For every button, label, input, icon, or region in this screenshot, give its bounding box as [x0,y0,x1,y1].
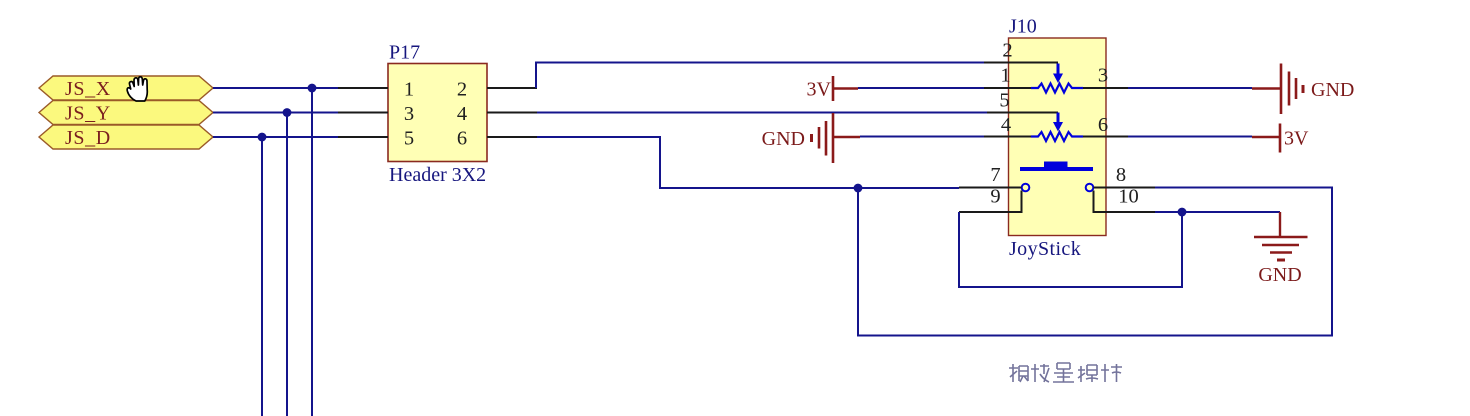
svg-text:3: 3 [404,103,414,125]
svg-text:6: 6 [1098,114,1108,136]
svg-text:3V: 3V [1284,128,1309,150]
wire JS_Y to P17 pin3 [213,112,340,114]
junction on JS_X wire [308,84,317,93]
wire P17 pin4 to J10 pin5 [537,112,987,114]
wire P17 pin6 toward switch [537,137,959,188]
pushbutton contact left [1022,184,1030,192]
svg-text:4: 4 [457,103,467,125]
P17 pin 6 [457,128,537,150]
svg-text:2: 2 [1002,40,1012,62]
port JS_D [39,125,213,149]
svg-text:1: 1 [1000,65,1010,87]
wire outer loop pin7 junction to pin8 [858,188,1332,336]
svg-text:GND: GND [1258,264,1301,286]
svg-text:J10: J10 [1009,16,1037,38]
hand cursor icon [127,77,147,101]
J10 pin 2 [984,40,1058,63]
J10 pin 7 [959,164,1022,188]
svg-text:5: 5 [404,128,414,150]
ground earth symbol bottom right [1254,212,1308,286]
svg-text:JS_Y: JS_Y [65,103,111,125]
svg-text:10: 10 [1118,186,1139,208]
connector P17 body [388,42,487,187]
potentiometer X wiper arrow [1053,64,1063,84]
svg-text:3: 3 [1098,65,1108,87]
P17 pin 5 [338,128,414,150]
wire pin10 to GND earth [1155,211,1280,213]
J10 pin 10 [1094,186,1156,213]
svg-text:JS_X: JS_X [65,78,111,100]
J10 pin 9 [959,186,1022,213]
junction node JS_D at switch [854,184,863,193]
junction on JS_D wire [258,133,267,142]
svg-text:2: 2 [457,79,467,101]
svg-text:3V: 3V [807,79,832,101]
potentiometer Y resistor [1031,132,1083,141]
junction on JS_Y wire [283,108,292,117]
svg-text:4: 4 [1001,114,1011,136]
svg-text:6: 6 [457,128,467,150]
power port 3V left [807,76,858,101]
wire inner loop pin9 to pin10 net [959,212,1182,287]
svg-text:JS_D: JS_D [65,127,111,149]
junction on pin10 wire [1178,208,1187,217]
J10 pin 4 [984,114,1031,137]
svg-text:8: 8 [1116,164,1126,186]
J10 pin 6 [1083,114,1128,137]
wire 3V to J10 pin1 [858,87,984,89]
power port 3V right [1252,124,1309,153]
wire J10 pin6 to 3V [1128,136,1252,138]
svg-text:1: 1 [404,79,414,101]
P17 pin 4 [457,103,537,125]
J10 pin 1 [984,65,1031,89]
J10 pin 5 [987,90,1058,113]
svg-text:P17: P17 [389,42,420,64]
potentiometer Y wiper arrow [1053,113,1063,132]
annotation text 模拟量摇杆 [1009,363,1122,382]
svg-text:JoyStick: JoyStick [1009,238,1081,260]
pushbutton contact right [1086,184,1094,192]
P17 pin 2 [457,79,537,101]
port JS_X [39,76,213,100]
wire JS_X vertical drop [311,88,313,416]
port JS_Y [39,101,213,125]
pushbutton actuator [1020,162,1093,170]
wire P17 pin2 to J10 pin2 [536,63,984,89]
power port GND left [762,113,860,163]
wire J10 pin3 to GND [1128,87,1252,89]
potentiometer X resistor [1031,84,1083,93]
svg-text:7: 7 [990,164,1000,186]
wire JS_D vertical drop [261,137,263,416]
wire JS_Y vertical drop [286,113,288,416]
svg-text:Header 3X2: Header 3X2 [389,164,486,186]
svg-text:GND: GND [1311,79,1354,101]
J10 pin 3 [1083,65,1128,89]
svg-text:5: 5 [999,90,1009,112]
wire JS_X to P17 pin1 [213,87,340,89]
wire GND to J10 pin4 [860,136,984,138]
J10 pin 8 [1094,164,1156,188]
P17 pin 3 [338,103,414,125]
wire JS_D to P17 pin5 [213,136,340,138]
P17 pin 1 [338,79,414,101]
joystick J10 body [1009,16,1107,261]
svg-text:9: 9 [990,186,1000,208]
power port GND right [1252,64,1354,115]
svg-text:GND: GND [762,128,805,150]
